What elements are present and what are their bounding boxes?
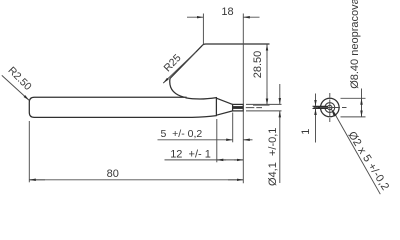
end view inner circle — [325, 103, 335, 113]
end view slot fill — [314, 106, 328, 108]
dim 5 line left part with arrow — [158, 139, 233, 141]
tip rectangle — [233, 104, 244, 111]
leader R25 — [163, 52, 196, 83]
tip bore dark band — [233, 106, 244, 109]
dim 28.50 bottom extension — [253, 104, 270, 106]
leader R2.50 — [2, 75, 29, 100]
dim dia 8.40 arrow up — [361, 98, 363, 108]
dim 1 arrow upper — [315, 94, 317, 107]
end view center hole — [328, 105, 332, 109]
dim 18 line right arrow — [243, 16, 259, 18]
dim 28.50 arrow up — [266, 44, 268, 58]
dim dia 4,1 arrow bottom — [279, 111, 281, 183]
dim dia 4,1 extension bottom — [246, 110, 282, 112]
dim 28.50 arrow down — [266, 92, 268, 105]
end view outer circle — [321, 98, 340, 117]
svg-text:1: 1 — [300, 129, 312, 135]
svg-text:18: 18 — [221, 6, 233, 18]
svg-text:Ø2 x 5 +/-0,2: Ø2 x 5 +/-0,2 — [345, 129, 391, 192]
dim 18 extension left — [202, 14, 204, 45]
svg-text:12 +/- 1: 12 +/- 1 — [170, 148, 211, 160]
tip centerline — [246, 107, 262, 109]
svg-text:R2.50: R2.50 — [5, 65, 33, 93]
svg-text:Ø4,1 +/-0,1: Ø4,1 +/-0,1 — [267, 128, 279, 186]
dim 80 extension left — [28, 121, 30, 182]
dim 5 extension — [232, 113, 234, 143]
dim dia 8.40 extension bottom — [341, 116, 366, 118]
body outline side view — [29, 97, 216, 117]
dim dia 4,1 extension top — [246, 103, 282, 105]
taper to tip — [216, 98, 232, 115]
svg-text:Ø8.40 neopracovan: Ø8.40 neopracovan — [349, 0, 361, 89]
svg-text:80: 80 — [107, 168, 119, 180]
dim 12 extension — [216, 119, 218, 162]
end view centerline horizontal — [314, 107, 347, 109]
end view centerline vertical — [329, 93, 331, 122]
dim 80 line — [29, 179, 243, 181]
svg-text:28.50: 28.50 — [252, 51, 264, 79]
svg-text:R25: R25 — [162, 52, 184, 74]
dim 12 arrow right — [234, 159, 243, 161]
leader dia 2x5 arrowhead — [331, 108, 337, 117]
leader dia 2x5 line — [334, 112, 381, 195]
dim 80 arrow left — [29, 179, 45, 181]
dim 18 extension right long — [242, 14, 244, 184]
dim dia 4,1 arrow top — [279, 84, 281, 104]
dim 80 arrow right — [228, 179, 243, 181]
dim dia 8.40 arrow down — [361, 107, 363, 117]
dim 1 arrow lower — [315, 109, 317, 143]
dim 5 line right part with arrow — [243, 139, 252, 141]
svg-text:5 +/- 0,2: 5 +/- 0,2 — [161, 128, 203, 140]
end view slot — [313, 106, 328, 108]
dim 12 line — [165, 159, 244, 161]
dim 12 arrow left — [217, 159, 226, 161]
bent position phantom outline — [170, 44, 270, 97]
dim dia 8.40 line with arrows — [361, 89, 363, 117]
dim dia 8.40 extension top — [341, 97, 366, 99]
dim 18 line left arrow — [187, 16, 203, 18]
dim 28.50 line — [266, 47, 268, 102]
